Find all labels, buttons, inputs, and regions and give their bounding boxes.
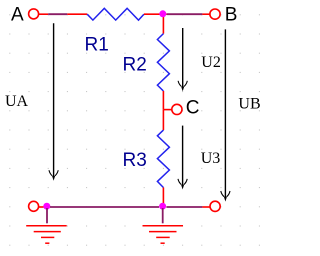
ground middle: bars (143, 226, 184, 243)
wire: R3 bottom pin to ground rail (162, 188, 164, 208)
resistor R1 (87, 8, 144, 20)
arrow U2 (178, 28, 187, 88)
wire: junction to B net (red stub) (162, 13, 167, 15)
junction bottom-left (43, 203, 50, 210)
wire: net A to R1 (48, 13, 67, 15)
terminal bottom-left (29, 201, 39, 211)
wire: R1 left pin lead (67, 13, 87, 15)
ground middle: stub (162, 208, 164, 223)
svg-text:R3: R3 (123, 150, 147, 171)
terminal bottom-right (210, 201, 220, 211)
wire: bottom-left pin lead (39, 206, 44, 208)
junction bottom-middle (159, 203, 166, 210)
wire: R1 right pin lead (144, 13, 162, 15)
wire: net to terminal B (167, 13, 203, 15)
wire: pin lead from terminal A (39, 13, 48, 15)
arrow UA (voltage arrow) (49, 23, 58, 177)
svg-text:B: B (225, 5, 238, 26)
terminal B (210, 9, 220, 19)
wire: R2 bottom pin to node C (162, 91, 164, 110)
terminal C (172, 104, 182, 114)
arrow UB (221, 29, 230, 198)
svg-text:R1: R1 (85, 34, 109, 55)
wire: node C down to R3 (162, 110, 164, 130)
junction at node B rail (159, 10, 166, 17)
wire: pin lead to bottom-right terminal (202, 206, 209, 208)
svg-text:UA: UA (5, 93, 29, 110)
ground left: bars (26, 226, 66, 243)
terminal A (29, 9, 39, 19)
svg-text:R2: R2 (123, 54, 147, 75)
wire: pin lead to terminal B (202, 13, 209, 15)
svg-text:A: A (11, 5, 24, 26)
svg-text:U2: U2 (201, 54, 221, 71)
ground left: stub (46, 208, 48, 223)
resistor R3 (157, 130, 169, 187)
wire: ground rail left segment (50, 206, 159, 208)
resistor R2 (157, 34, 169, 91)
svg-text:UB: UB (238, 96, 260, 113)
svg-text:U3: U3 (201, 150, 221, 167)
svg-text:C: C (186, 98, 200, 119)
arrow U3 (178, 126, 187, 187)
wire: top junction down to R2 (162, 14, 164, 33)
wire: node C stub (163, 109, 171, 111)
wire: ground rail right segment (166, 206, 202, 208)
